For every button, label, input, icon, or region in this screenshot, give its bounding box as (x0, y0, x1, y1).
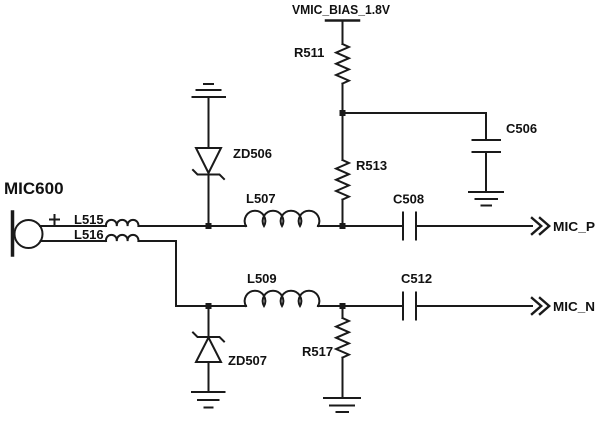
plus sign (50, 215, 59, 224)
wire C508 to MIC_P port (416, 225, 532, 227)
svg-text:R517: R517 (302, 344, 333, 359)
svg-text:C506: C506 (506, 121, 537, 136)
node junction R513 / MIC_P line (340, 223, 346, 229)
ground (above ZD506, inverted) (193, 84, 226, 97)
wire node to R517 (342, 306, 344, 318)
svg-text:ZD507: ZD507 (228, 353, 267, 368)
wire L515 to L507 (139, 225, 246, 227)
wire L516 down to MIC_N line (139, 241, 209, 306)
capacitor C512 (401, 271, 432, 320)
svg-text:C512: C512 (401, 271, 432, 286)
wire power bar to R511 (342, 21, 344, 45)
inductor L515 (74, 212, 138, 227)
power rail bar VMIC_BIAS_1.8V (326, 19, 359, 22)
svg-text:MIC_N: MIC_N (553, 299, 595, 314)
svg-text:R511: R511 (294, 45, 324, 60)
zener diode ZD507 (193, 333, 267, 369)
inductor L509 (245, 271, 320, 306)
svg-text:MIC600: MIC600 (4, 179, 64, 198)
wire ZD507 to ground (208, 362, 210, 392)
node junction R517 / MIC_N line (340, 303, 346, 309)
wire C506 to ground (485, 152, 487, 192)
svg-text:R513: R513 (356, 158, 387, 173)
ground (below ZD507) (192, 392, 225, 408)
wire L509 to C512 (318, 305, 403, 307)
capacitor C508 (393, 192, 424, 240)
inductor L507 (245, 191, 320, 226)
svg-text:L509: L509 (247, 271, 277, 286)
node junction ZD507 / MIC_N line (206, 303, 212, 309)
svg-text:L516: L516 (74, 227, 104, 242)
node junction ZD506 / MIC_P line (206, 223, 212, 229)
wire node A to R513 (342, 113, 344, 160)
wire MIC_N node to L509 (209, 305, 247, 307)
svg-text:L515: L515 (74, 212, 104, 227)
ground (below R517) (324, 398, 360, 412)
wire mic to L515 (40, 225, 106, 227)
wire ground to ZD506 (208, 97, 210, 148)
svg-text:MIC_P: MIC_P (553, 219, 595, 234)
svg-text:L507: L507 (246, 191, 276, 206)
resistor R511 (294, 44, 349, 84)
wire C512 to MIC_N port (416, 305, 532, 307)
wire MIC_N node to ZD507 (208, 306, 210, 337)
port MIC_N (532, 298, 595, 314)
wire R513 to MIC_P line (342, 200, 344, 226)
svg-text:ZD506: ZD506 (233, 146, 272, 161)
inductor L516 (74, 227, 138, 242)
resistor R517 (302, 318, 349, 359)
wire ZD506 to MIC_P line (208, 175, 210, 227)
port MIC_P (532, 218, 595, 234)
node A junction (R511/R513/C506) (340, 110, 346, 116)
wire mic to L516 (41, 240, 107, 242)
ground (below C506) (469, 192, 503, 206)
wire L507 to C508 (318, 225, 403, 227)
wire R511 to node A (342, 84, 344, 113)
svg-text:VMIC_BIAS_1.8V: VMIC_BIAS_1.8V (292, 2, 390, 17)
wire R517 to ground (342, 358, 344, 398)
capacitor C506 (473, 121, 538, 152)
zener diode ZD506 (193, 146, 272, 179)
microphone MIC600 (4, 179, 64, 255)
wire node A to C506 (343, 113, 487, 140)
svg-text:C508: C508 (393, 192, 424, 207)
resistor R513 (336, 158, 387, 200)
